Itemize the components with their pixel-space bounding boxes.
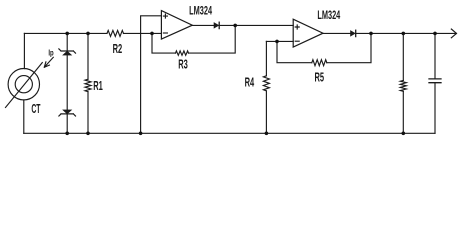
svg-text:CT: CT xyxy=(31,103,41,117)
resistor R1 xyxy=(85,79,91,92)
op-amp U1 triangle xyxy=(161,11,192,39)
resistor R4 xyxy=(263,76,269,91)
zener diode D2 (cathode down) xyxy=(63,110,72,114)
CT primary diagonal line xyxy=(6,63,43,108)
current transformer CT inner circle xyxy=(15,76,32,93)
junction node: R1/top bus xyxy=(86,32,90,36)
wire: R4 branch lower xyxy=(265,91,267,133)
svg-text:LM324: LM324 xyxy=(317,9,340,22)
svg-text:R3: R3 xyxy=(178,59,188,72)
junction node: inverting input U2 xyxy=(275,40,279,44)
wire: op-amp U2 output to diode D4 xyxy=(323,32,351,34)
wire: feedback drop to R5 xyxy=(277,41,312,62)
wire: op-amp U1 non-inverting input feed xyxy=(141,16,162,134)
op-amp U2 triangle xyxy=(293,19,323,47)
junction node: zener/top bus xyxy=(65,32,69,36)
junction node: R4 bottom xyxy=(265,132,269,136)
wire: feedback drop to R3 xyxy=(152,33,176,53)
resistor R5 xyxy=(312,60,327,66)
svg-text:LM324: LM324 xyxy=(189,5,212,18)
svg-text:Ip: Ip xyxy=(48,50,54,58)
wire: load resistor branch lower xyxy=(402,91,404,133)
capacitor C1 plates xyxy=(429,79,441,83)
wire: capacitor branch upper xyxy=(434,33,436,78)
junction node: zener bottom xyxy=(65,132,69,136)
op-amp U2 minus sign xyxy=(295,40,299,42)
zener diode D1 (cathode up) xyxy=(59,49,76,53)
wire: diode D3 to op-amp U2 non-inverting input xyxy=(219,24,293,26)
svg-text:R1: R1 xyxy=(93,80,103,93)
junction node: U2 output after diode xyxy=(369,32,373,36)
wire: zener branch middle segment xyxy=(66,55,68,110)
diode D4 xyxy=(351,31,356,36)
junction node: U1 + ground xyxy=(139,132,143,136)
wire: left rail upper (corner to CT top) xyxy=(23,33,25,68)
wire: load resistor branch upper xyxy=(402,33,404,80)
wire: R3 to output node xyxy=(189,25,236,53)
junction node: R1 bottom xyxy=(86,132,90,136)
wire: zener branch lower segment xyxy=(66,114,68,133)
wire: R1 branch upper xyxy=(87,33,89,79)
wire: op-amp U1 output to diode D3 xyxy=(192,24,214,26)
op-amp U1 minus sign xyxy=(163,32,167,34)
current transformer CT outer circle xyxy=(8,69,39,100)
resistor R2 xyxy=(107,30,124,36)
wire: R1 branch lower xyxy=(87,92,89,134)
op-amp U2 plus sign xyxy=(295,25,299,29)
wire: zener branch upper segment xyxy=(66,33,68,51)
svg-text:R4: R4 xyxy=(245,77,255,90)
wire: capacitor branch lower xyxy=(434,83,436,134)
wire: op-amp U2 inverting input xyxy=(266,40,293,42)
op-amp U1 plus sign xyxy=(163,14,167,18)
wire: top bus from left rail to R2 xyxy=(24,32,107,34)
junction node: load resistor top xyxy=(402,32,406,36)
junction node: inverting input U1 xyxy=(150,32,154,36)
wire: output line with arrow xyxy=(356,29,457,38)
bottom rail xyxy=(24,132,435,134)
svg-text:R2: R2 xyxy=(113,43,123,56)
wire: R4 branch upper xyxy=(265,41,267,75)
wire: R5 to output node xyxy=(327,33,371,62)
svg-text:R5: R5 xyxy=(315,72,325,85)
Ip current arrow xyxy=(44,57,53,67)
load resistor xyxy=(400,80,406,91)
wire: left rail lower (CT bottom to bottom rail) xyxy=(23,100,25,133)
junction node: capacitor top xyxy=(433,32,437,36)
resistor R3 xyxy=(176,51,189,55)
wire: R2 to op-amp inverting input xyxy=(124,32,162,34)
diode D3 xyxy=(214,23,219,28)
junction node: load resistor bottom xyxy=(402,132,406,136)
junction node: U1 output after diode xyxy=(233,24,237,28)
